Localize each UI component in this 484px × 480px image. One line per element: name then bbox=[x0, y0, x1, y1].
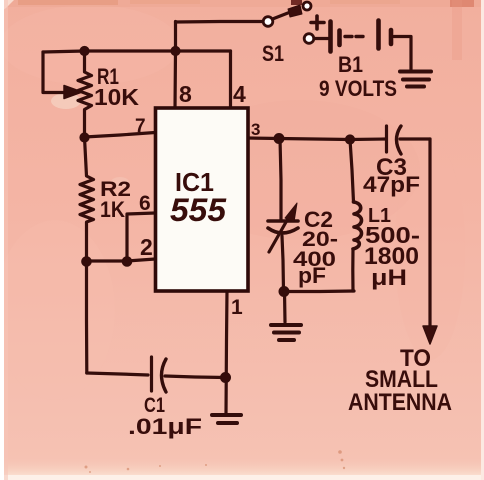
mark above switch at top edge bbox=[291, 0, 302, 5]
svg-text:S1: S1 bbox=[262, 41, 284, 66]
svg-text:.01μF: .01μF bbox=[128, 414, 202, 439]
switch S1 blade bbox=[288, 5, 302, 17]
variable capacitor C2 bottom plate bbox=[268, 228, 298, 233]
wire upper rail y51 bbox=[43, 51, 231, 52]
inductor L1 bbox=[350, 140, 354, 203]
node C1/pin1 bbox=[221, 373, 231, 383]
svg-text:1: 1 bbox=[231, 296, 243, 319]
node top-left bbox=[80, 46, 89, 55]
node top pin8 bbox=[171, 46, 180, 55]
svg-text:47pF: 47pF bbox=[363, 172, 420, 197]
svg-text:B1: B1 bbox=[338, 52, 363, 77]
capacitor C3 left plate bbox=[385, 126, 388, 152]
right white sliver bbox=[481, 0, 484, 480]
svg-text:555: 555 bbox=[170, 192, 227, 228]
ground C1 bbox=[212, 415, 241, 423]
battery B1 cell2 short plate bbox=[389, 30, 394, 44]
battery dashes bbox=[345, 35, 363, 38]
IC U1 555 body bbox=[156, 108, 249, 291]
ground C2 bbox=[271, 325, 301, 340]
variable capacitor C2 top plate bbox=[268, 219, 298, 223]
svg-text:9 VOLTS: 9 VOLTS bbox=[319, 76, 397, 101]
battery B1 cell1 short plate bbox=[337, 31, 342, 46]
wire top rail to switch bbox=[176, 20, 264, 24]
potentiometer R1 body bbox=[78, 51, 92, 137]
battery B1 terminal circle bbox=[304, 34, 314, 44]
wire bottom row C2-L1 bbox=[284, 289, 354, 293]
wire pin1 vertical bbox=[226, 291, 227, 414]
svg-text:7: 7 bbox=[135, 116, 146, 137]
switch S1 top contact bbox=[303, 2, 311, 10]
svg-text:8: 8 bbox=[179, 81, 192, 107]
wire C2 bottom vertical bbox=[282, 236, 284, 291]
svg-text:6: 6 bbox=[139, 192, 151, 215]
svg-text:3: 3 bbox=[251, 120, 260, 139]
wire battery lead left bbox=[314, 37, 328, 40]
wire ground drop C2 bbox=[283, 292, 287, 323]
top edge mottling bbox=[0, 0, 484, 7]
wire C3 to antenna line bbox=[400, 137, 430, 140]
wire battery to ground bbox=[394, 37, 411, 70]
wire pin4 vertical bbox=[229, 51, 232, 109]
wire pin3 rail bbox=[248, 138, 386, 140]
capacitor C3 right plate bbox=[397, 126, 402, 154]
bottom speckles bbox=[85, 450, 346, 473]
corner notch top-left bbox=[0, 0, 14, 12]
svg-text:10K: 10K bbox=[94, 84, 139, 110]
node pin6/2 junction bbox=[122, 257, 132, 267]
eraser smudge near R1 wiper bbox=[51, 93, 81, 109]
variable capacitor C2 arrow bbox=[269, 215, 290, 252]
resistor R2 bbox=[80, 138, 94, 262]
battery B1 cell1 long plate bbox=[328, 22, 333, 52]
svg-text:2: 2 bbox=[140, 234, 153, 260]
wire left vertical to C1 bbox=[85, 262, 89, 374]
smudge at arrowhead bbox=[111, 177, 129, 187]
wire C2 branch vertical upper bbox=[280, 139, 281, 222]
svg-text:pF: pF bbox=[298, 263, 326, 288]
wire pin6 bbox=[127, 213, 155, 261]
potentiometer R1 wiper arrowhead bbox=[64, 86, 82, 99]
left white margin bbox=[0, 0, 4, 480]
wire pin8 vertical bbox=[173, 22, 177, 110]
antenna arrowhead bbox=[423, 326, 437, 344]
bottom fade strip bbox=[0, 455, 484, 480]
svg-text:ANTENNA: ANTENNA bbox=[348, 389, 452, 416]
svg-text:4: 4 bbox=[233, 81, 246, 107]
svg-text:μH: μH bbox=[371, 265, 407, 290]
wire antenna vertical bbox=[428, 139, 431, 327]
svg-text:1K: 1K bbox=[100, 197, 125, 222]
node pin7 row bbox=[80, 133, 89, 142]
capacitor C1 left plate bbox=[150, 357, 153, 391]
switch S1 pivot bbox=[263, 17, 273, 27]
wire R1 wiper loop bbox=[43, 52, 66, 93]
wire C1 row left bbox=[87, 373, 148, 375]
wire C1 to pin1 node bbox=[165, 376, 225, 378]
node pin2 left bbox=[82, 257, 92, 267]
battery B1 cell2 long plate bbox=[376, 21, 381, 49]
switch S1 lever bbox=[273, 11, 294, 19]
faint streak top right bbox=[452, 0, 462, 60]
capacitor C1 right plate bbox=[162, 359, 167, 392]
wire pin7 bbox=[85, 133, 156, 138]
node C2/L1 bottom bbox=[279, 287, 289, 297]
battery plus sign bbox=[311, 16, 324, 29]
node C2 branch bbox=[274, 134, 284, 144]
wire pin2 row bbox=[87, 259, 156, 261]
ground battery bbox=[400, 72, 431, 87]
node L1 branch bbox=[345, 135, 354, 144]
